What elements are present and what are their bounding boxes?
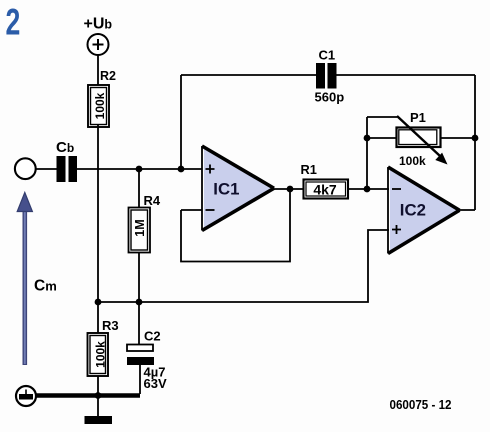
- wire input to Cb: [36, 168, 57, 170]
- svg-text:560p: 560p: [315, 90, 345, 105]
- svg-text:IC1: IC1: [213, 180, 239, 199]
- thick ground wire: [36, 393, 140, 398]
- svg-text:4k7: 4k7: [313, 181, 337, 197]
- svg-text:+Ub: +Ub: [84, 16, 113, 33]
- node dot (top wire tap): [178, 166, 185, 173]
- wire R2 down to bottom node: [97, 125, 99, 302]
- resistor R2: [88, 69, 116, 127]
- op-amp IC2: [388, 167, 460, 254]
- right vertical wire: [474, 75, 476, 210]
- svg-text:R4: R4: [144, 193, 161, 208]
- svg-text:C1: C1: [319, 48, 336, 63]
- wire IC1 output to R1: [273, 188, 303, 190]
- ground bar: [85, 416, 113, 424]
- svg-text:63V: 63V: [144, 376, 167, 391]
- svg-text:C2: C2: [144, 329, 161, 344]
- svg-text:060075 - 12: 060075 - 12: [390, 397, 452, 412]
- node dot (IC1 output): [287, 186, 294, 193]
- P1 left vertical wire: [366, 117, 368, 189]
- wire Cb to IC1 noninverting input: [77, 168, 202, 170]
- svg-text:R1: R1: [301, 162, 317, 177]
- op-amp IC1: [202, 146, 274, 231]
- wire to ground bar: [97, 396, 99, 416]
- input terminal circle: [15, 158, 36, 179]
- svg-text:1M: 1M: [133, 219, 147, 236]
- resistor R1: [301, 162, 349, 199]
- top wire to C1 left: [181, 74, 316, 76]
- svg-text:100k: 100k: [94, 341, 108, 368]
- capacitor Cb: [56, 139, 77, 182]
- svg-text:2: 2: [6, 1, 21, 42]
- bottom mid wire to IC2 + input: [98, 230, 389, 302]
- svg-text:IC2: IC2: [400, 201, 426, 220]
- P1 wiper wire: [367, 116, 397, 118]
- svg-text:R3: R3: [102, 318, 119, 333]
- earth terminal circle: [16, 386, 36, 406]
- node dot (R3/ground): [95, 392, 102, 399]
- IC2 output wire: [459, 209, 476, 211]
- supply terminal circle: [88, 34, 109, 55]
- potentiometer P1: [367, 110, 475, 168]
- capacitor C1: [315, 48, 345, 105]
- svg-text:P1: P1: [410, 110, 426, 125]
- Cm arrow: [17, 193, 57, 366]
- wire top-left vertical (node to top wire): [180, 75, 182, 169]
- node dot (P1 left): [364, 135, 371, 142]
- svg-text:Cb: Cb: [56, 139, 74, 156]
- capacitor C2: [127, 302, 167, 394]
- resistor R4: [129, 169, 161, 302]
- node dot (P1 right): [472, 135, 479, 142]
- node dot (R2/R3): [95, 299, 102, 306]
- top wire C1 right to corner: [337, 74, 476, 76]
- node dot (Cb/R4): [136, 166, 143, 173]
- svg-text:Cm: Cm: [34, 278, 57, 295]
- svg-text:R2: R2: [100, 69, 116, 83]
- IC1 feedback wire: [181, 189, 290, 262]
- resistor R3: [88, 302, 119, 395]
- svg-text:100k: 100k: [93, 92, 107, 119]
- wire supply to R2: [97, 55, 99, 86]
- svg-text:100k: 100k: [399, 154, 426, 168]
- node dot (R4/C2): [136, 299, 143, 306]
- IC1 inverting input stub: [181, 209, 202, 211]
- node dot (R1/P1): [364, 186, 371, 193]
- wire R1 to IC2 inverting input: [347, 188, 389, 190]
